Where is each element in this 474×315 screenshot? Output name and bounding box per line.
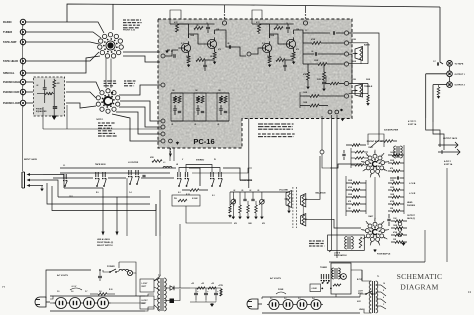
wire jack vertical chain — [22, 24, 24, 80]
ground V2 — [373, 250, 377, 253]
svg-text:W: W — [214, 159, 216, 161]
svg-text:R-9: R-9 — [96, 192, 99, 194]
resistor R10 emitter Q3 — [268, 56, 271, 63]
ground R15 — [306, 87, 310, 90]
wire output 2 feed — [433, 84, 447, 86]
svg-text:1.2M: 1.2M — [390, 180, 394, 182]
coil L3 line choke — [119, 269, 129, 271]
svg-text:LO FILTER: LO FILTER — [128, 162, 139, 164]
wire routing riser B — [159, 190, 161, 236]
wire network bus bottom — [171, 120, 229, 122]
resistor column right of V2 — [395, 220, 403, 223]
plug AC right — [258, 303, 262, 305]
wire B+ top rail — [67, 4, 440, 22]
resistor R17 bottom — [310, 95, 319, 98]
terminal PC-16 left edge 5 — [161, 139, 165, 143]
ground C11 — [322, 89, 326, 92]
terminal PC-16 left edge 1 — [161, 83, 165, 87]
switch tape monitor — [63, 174, 65, 179]
resistor trio left of V1 — [355, 151, 364, 153]
wire line select drop 1 — [102, 188, 104, 232]
wire T4 primary leads — [362, 270, 371, 281]
wire SPECIAL to selector — [26, 56, 100, 73]
svg-text:J-1: J-1 — [63, 165, 65, 167]
resistor R26 filter — [197, 287, 205, 289]
ground post left — [167, 49, 170, 51]
tube heater V3 — [56, 298, 67, 309]
svg-text:FUSE: FUSE — [278, 289, 284, 291]
tube heater V5 — [84, 298, 95, 309]
wire rail down to tape jack — [440, 7, 443, 64]
svg-text:P.B.: P.B. — [174, 198, 178, 200]
svg-text:.05: .05 — [241, 190, 243, 192]
svg-text:V-2: V-2 — [284, 298, 287, 300]
pilot lamp — [127, 270, 132, 275]
wire S2 to PC-16 terminal 3 — [119, 107, 161, 127]
wire rail stub 1 — [224, 5, 226, 13]
wire connector bus 1 — [60, 167, 176, 169]
tube heater V7 — [269, 300, 279, 310]
capacitor C13 tape feed — [436, 62, 438, 65]
svg-text:6: 6 — [370, 243, 371, 245]
svg-text:5U4 AMPLIFIER: 5U4 AMPLIFIER — [384, 129, 399, 132]
wire PC-16 bottom to switch row — [169, 148, 171, 161]
svg-text:V-3: V-3 — [298, 298, 301, 300]
jack symbol 2 — [438, 151, 460, 153]
svg-text:FRONT AMPLIF.: FRONT AMPLIF. — [367, 140, 384, 143]
wire loudness feed — [229, 192, 231, 206]
resistor column right of V1 — [392, 154, 400, 157]
wire S2 to PC-16 terminal 2 — [120, 101, 161, 121]
wire routing loop 2 — [58, 196, 150, 198]
svg-text:R-30: R-30 — [109, 289, 113, 291]
transistor Q4 — [286, 39, 295, 48]
svg-text:TAPE AMP: TAPE AMP — [3, 40, 17, 44]
svg-text:.01: .01 — [171, 124, 173, 126]
resistor R13 to bass — [303, 42, 312, 44]
wire heater bus right top — [262, 296, 360, 298]
wire fuse leads — [164, 300, 169, 302]
svg-text:TONER: TONER — [320, 267, 328, 269]
capacitor C10 — [314, 52, 316, 56]
wire top rail right channel — [252, 23, 294, 25]
wire equalizer out — [53, 109, 55, 113]
capacitor C12 bass wiper — [360, 60, 362, 64]
svg-text:.02: .02 — [233, 190, 235, 192]
svg-text:AC VOLTS: AC VOLTS — [270, 277, 281, 280]
wire stereo switch out — [223, 168, 252, 180]
svg-text:SPECIAL: SPECIAL — [3, 71, 15, 75]
resistor R31 in driver box — [359, 237, 362, 248]
wire TAPE HEAD to selector — [26, 52, 99, 61]
tube heater V6 — [98, 298, 109, 309]
ground Q3 emitter — [268, 65, 272, 68]
svg-text:.05: .05 — [257, 190, 259, 192]
svg-text:X-2: X-2 — [262, 43, 265, 45]
tone generator box — [331, 263, 351, 294]
wire tone box leads — [351, 270, 362, 281]
svg-text:6: 6 — [370, 175, 371, 177]
ground board bottom — [341, 119, 345, 122]
resistor R6 bias — [196, 59, 205, 62]
terminal PC-16 left edge 3 — [161, 125, 165, 129]
dotted lead below corner — [170, 148, 171, 149]
svg-text:T-2: T-2 — [158, 275, 161, 277]
svg-text:LOUDNESS: LOUDNESS — [240, 180, 253, 182]
svg-text:8: 8 — [363, 162, 364, 164]
svg-text:+275V: +275V — [218, 285, 224, 287]
wire selector output to PC-16 input — [123, 51, 160, 53]
svg-text:VOLUME: VOLUME — [279, 190, 289, 192]
wire volume tap to amp — [292, 198, 294, 200]
equalization network group 2 — [194, 92, 206, 94]
terminal PC-16 right edge 2 — [344, 41, 348, 45]
wire routing loop 3 — [47, 183, 150, 204]
svg-text:TO TAPE: TO TAPE — [455, 62, 464, 65]
svg-text:16: 16 — [383, 283, 385, 285]
wire power riser — [46, 270, 91, 298]
switch S3a — [95, 172, 97, 177]
driver stage box — [328, 235, 365, 250]
capacitor C1 equalizer — [44, 80, 46, 88]
resistor R20 output load — [437, 87, 440, 95]
svg-text:S-2: S-2 — [178, 192, 181, 194]
svg-text:.01: .01 — [217, 124, 219, 126]
terminal PC-16 right edge 1 — [344, 31, 348, 35]
svg-text:POWER: POWER — [107, 266, 115, 268]
wire rail into PC-16 left — [170, 10, 181, 24]
resistor R17a mid — [330, 82, 339, 85]
svg-text:10: 10 — [286, 23, 288, 25]
svg-text:L.VOLT: L.VOLT — [142, 283, 149, 285]
svg-text:1.5M: 1.5M — [352, 79, 356, 81]
junction dots tone — [321, 288, 323, 290]
wire selector top feed — [112, 4, 114, 30]
svg-text:7: 7 — [364, 169, 365, 171]
phono equalizer network box — [34, 77, 65, 116]
transformer T4 output — [372, 281, 374, 313]
wire PC-16 to line select — [248, 119, 250, 189]
connector block label 2 — [140, 296, 154, 309]
svg-text:12AX7: 12AX7 — [368, 146, 373, 149]
svg-text:TUNER: TUNER — [3, 30, 12, 34]
svg-text:PHONO HIGH: PHONO HIGH — [3, 80, 20, 84]
wire bus right of tubes — [403, 145, 405, 214]
svg-text:V-7: V-7 — [85, 291, 88, 293]
wire tape feed from board — [349, 33, 379, 147]
resistor R3 collector load Q1 — [177, 23, 189, 25]
switch power right — [365, 293, 367, 295]
resistor R27 filter — [208, 287, 216, 289]
svg-text:1: 1 — [374, 152, 375, 154]
wire output bus — [426, 73, 447, 75]
svg-text:L CH R: L CH R — [409, 193, 416, 195]
svg-text:SELECT SWITCH: SELECT SWITCH — [97, 245, 113, 247]
loudness network — [230, 191, 268, 193]
wire cap ground bus — [190, 301, 216, 303]
wire Q4 collector output — [294, 30, 303, 43]
wire left channel to board edge — [234, 47, 246, 56]
wire Q3 collector to Q4 base — [270, 34, 284, 44]
transistor Q2 — [207, 39, 216, 48]
tube heater V10 — [311, 300, 321, 310]
resistor R24 top left of V1 — [352, 144, 360, 147]
wire to loudness — [189, 168, 200, 186]
resistor R18 bottom — [310, 104, 319, 107]
svg-text:.05: .05 — [227, 43, 229, 45]
jack symbol 1 — [438, 144, 458, 146]
capacitor C3 input — [173, 54, 175, 58]
equalization network group 3 — [217, 92, 229, 94]
terminal PC-16 left edge 2 — [161, 119, 165, 123]
wire amp section frame — [329, 261, 425, 263]
svg-text:NOTE 1: NOTE 1 — [96, 119, 103, 121]
wire S2 to PC-16 terminal 4 — [116, 112, 161, 134]
plug AC left — [46, 301, 50, 303]
arrow line select 2 — [115, 232, 118, 236]
tube heater V9 — [297, 300, 307, 310]
wire input to Q1 — [165, 50, 178, 56]
rotary selector switch S1 — [106, 41, 115, 50]
svg-text:4-7 PLT 1: 4-7 PLT 1 — [408, 120, 416, 123]
wire fuse bus — [261, 297, 263, 299]
svg-text:1: 1 — [374, 220, 375, 222]
svg-text:5: 5 — [378, 243, 379, 245]
resistor R25 heater — [98, 293, 107, 296]
svg-text:.05: .05 — [196, 25, 198, 27]
resistor R8 collector load Q3 — [258, 24, 261, 32]
wire balance to amp — [308, 219, 362, 228]
svg-text:+25: +25 — [211, 283, 214, 285]
arrow note to switch — [111, 89, 114, 96]
ground Q2 emitter — [213, 62, 217, 65]
svg-text:2.2M: 2.2M — [317, 79, 321, 81]
resistor R21 series — [152, 160, 162, 163]
svg-text:PHONES: PHONES — [407, 205, 416, 207]
svg-text:TREBLE: TREBLE — [364, 86, 373, 88]
wire volume top — [268, 191, 289, 194]
connector input multi-pin — [21, 172, 23, 188]
PC-16 board shaded region — [158, 19, 352, 148]
switch S4 — [177, 172, 179, 177]
wire routing loop 1 — [64, 187, 103, 189]
wire bus risers from connector — [43, 175, 64, 189]
svg-text:A-PLT-1: A-PLT-1 — [444, 160, 451, 163]
svg-text:BASS: BASS — [364, 44, 370, 47]
jack TO TAPE — [447, 61, 453, 67]
transformer T1 interstage — [347, 237, 349, 250]
svg-text:BALANCE: BALANCE — [316, 192, 327, 195]
svg-text:FRONT PANEL (2): FRONT PANEL (2) — [97, 241, 113, 244]
resistor R28 tone — [333, 284, 341, 286]
coil L1 filter — [163, 167, 172, 169]
wire treble link — [349, 54, 352, 84]
svg-text:4: 4 — [383, 296, 384, 299]
wire rail into PC-16 right — [252, 10, 262, 24]
jack OUTPUT 2 — [447, 82, 453, 88]
headphone network box — [172, 195, 200, 206]
capacitor C4 — [206, 26, 210, 28]
svg-text:2: 2 — [381, 223, 382, 225]
wire tape output drop — [126, 178, 128, 236]
capacitor C15 — [396, 176, 398, 179]
tube V1 front amplifier — [373, 154, 377, 158]
terminal PC-16 right edge 5 — [344, 81, 348, 85]
svg-text:L CH B: L CH B — [409, 183, 416, 185]
svg-text:8: 8 — [383, 290, 384, 292]
svg-text:SPKR: SPKR — [358, 293, 363, 295]
tube heater V8 — [283, 300, 293, 310]
terminal PC-16 right edge 6 — [344, 94, 348, 98]
svg-text:V-5: V-5 — [57, 291, 60, 293]
capacitor C16 coupling — [387, 218, 390, 220]
switch S3b — [128, 170, 130, 175]
svg-text:10: 10 — [206, 23, 208, 25]
svg-text:470: 470 — [296, 48, 299, 51]
wire PHONO CER to phono selector — [26, 91, 33, 93]
wire left riser 1 — [66, 105, 68, 129]
pilot circle tone — [341, 274, 347, 280]
ground Q1 emitter — [187, 65, 191, 68]
terminal board top 2 — [303, 21, 307, 25]
wire bleeder — [220, 288, 222, 296]
wire Q2 collector output — [215, 30, 234, 47]
svg-text:PROP BAFFLE: PROP BAFFLE — [334, 254, 347, 257]
label 6.3V — [70, 288, 82, 290]
ground filter bank — [210, 304, 214, 307]
resistor R9 feedback right — [274, 27, 283, 30]
wire bottom bus left area — [43, 128, 162, 130]
jack OUTPUT 1 — [447, 71, 453, 77]
svg-text:3: 3 — [385, 230, 386, 232]
wire TAPE AMP to selector — [26, 42, 99, 44]
svg-text:PC-16: PC-16 — [193, 137, 214, 146]
wire filter riser to headphone bus — [179, 224, 181, 288]
resistor R12 emitter Q4 — [292, 52, 295, 59]
wire switch row link — [53, 177, 93, 179]
svg-text:LINE-B: LINE-B — [359, 309, 365, 311]
potentiometer BALANCE second section — [301, 214, 306, 227]
switch S5 stereo mode — [210, 172, 212, 177]
wire routing loop 4 — [52, 186, 156, 211]
choke L2 plate — [396, 146, 398, 158]
wire V1 grid feed — [330, 164, 362, 168]
resistor R4 feedback — [194, 27, 203, 30]
wire bus 2 continue — [192, 168, 252, 173]
terminal board top 1 — [222, 21, 226, 25]
wire connector bus 2 — [60, 172, 170, 174]
svg-text:12AX7: 12AX7 — [368, 215, 373, 218]
note AC filter — [309, 240, 312, 242]
fuse block — [170, 299, 175, 304]
svg-text:9: 9 — [367, 155, 368, 157]
ground equalizer — [53, 113, 55, 116]
svg-text:1 F: 1 F — [305, 30, 307, 32]
terminal tube V2 outputs — [398, 222, 402, 226]
resistor ladder between tubes — [352, 182, 360, 185]
wire switch group loop top — [186, 165, 212, 173]
capacitor C11 lower right — [322, 81, 326, 83]
svg-text:TAPE HEAD: TAPE HEAD — [3, 59, 18, 63]
ground tube V2 right — [401, 243, 405, 246]
wire B+ bus — [190, 287, 221, 289]
svg-text:7: 7 — [364, 237, 365, 239]
wire S2 to PC-16 terminal 1 — [119, 85, 161, 95]
wire headphone loop — [186, 206, 232, 223]
transformer T3 tone — [334, 268, 336, 279]
wire PHONO LOW to phono selector — [26, 102, 33, 104]
rectifier diode D1 — [164, 287, 170, 289]
wire heater bus top — [50, 295, 145, 297]
wire phono cer to S2 — [66, 92, 96, 98]
resistor R1 equalizer — [53, 79, 55, 80]
wire left bus V1 — [350, 148, 352, 168]
tube V2 phase splitter — [373, 222, 377, 226]
terminal input left channel — [161, 54, 165, 58]
rotary phono selector switch S2 — [103, 96, 112, 105]
wire input to Q3 — [251, 48, 262, 54]
resistor R11 bias right — [276, 59, 285, 62]
resistor R30 headphone — [178, 199, 187, 201]
svg-text:H.VOLT: H.VOLT — [142, 300, 149, 302]
wire balance sections link — [302, 206, 304, 215]
svg-text:S-3: S-3 — [212, 195, 215, 197]
resistor R22 — [190, 189, 199, 192]
resistor R23 plate V1 — [384, 140, 393, 143]
svg-text:OUTPUT: OUTPUT — [407, 215, 416, 217]
resistor R16 lower right — [323, 72, 326, 80]
terminal input right channel — [247, 52, 251, 56]
ground Q4 emitter — [292, 62, 296, 65]
svg-text:L-1: L-1 — [163, 162, 166, 164]
svg-text:PUSH BAFFLE: PUSH BAFFLE — [377, 253, 391, 256]
wire S2 to PC-16 terminal 5 — [112, 114, 161, 141]
capacitor C7 — [286, 26, 290, 28]
svg-text:TAPE MON: TAPE MON — [95, 163, 106, 166]
wire RADIO to selector — [26, 22, 104, 33]
svg-text:HI-FI: HI-FI — [357, 301, 361, 303]
switch tone contacts — [320, 274, 322, 279]
svg-text:HEAD: HEAD — [407, 201, 413, 204]
filter capacitor bank — [195, 288, 197, 293]
wire heater interconnects — [50, 302, 56, 304]
svg-text:.02: .02 — [311, 51, 313, 53]
connector block label 1 — [140, 279, 154, 292]
wire heater bus bottom — [50, 310, 145, 312]
svg-text:V-1: V-1 — [270, 298, 273, 300]
terminal board bottom — [328, 110, 332, 114]
ground connector — [41, 186, 43, 189]
svg-text:EQUALIZER: EQUALIZER — [36, 110, 47, 113]
svg-text:STEREO: STEREO — [196, 160, 205, 162]
svg-text:JACK (2): JACK (2) — [407, 217, 415, 220]
capacitor C14 filter — [142, 174, 145, 176]
wire Q1 collector to Q2 base — [189, 34, 205, 44]
svg-text:+25: +25 — [201, 283, 204, 285]
svg-text:8 OHM: 8 OHM — [192, 198, 198, 200]
note all DC voltages — [258, 123, 263, 125]
wire frame risers — [446, 168, 448, 262]
svg-text:8 EXT 1A: 8 EXT 1A — [408, 123, 417, 126]
svg-text:V-6: V-6 — [71, 291, 74, 293]
svg-text:2: 2 — [381, 155, 382, 157]
wire PHONO HIGH to phono selector — [26, 81, 33, 83]
resistor R2 equalizer horizontal — [45, 92, 53, 94]
transistor Q1 — [181, 43, 190, 52]
svg-text:5: 5 — [378, 175, 379, 177]
capacitor C17 line — [98, 275, 102, 277]
svg-text:DIAGRAM: DIAGRAM — [400, 283, 438, 292]
